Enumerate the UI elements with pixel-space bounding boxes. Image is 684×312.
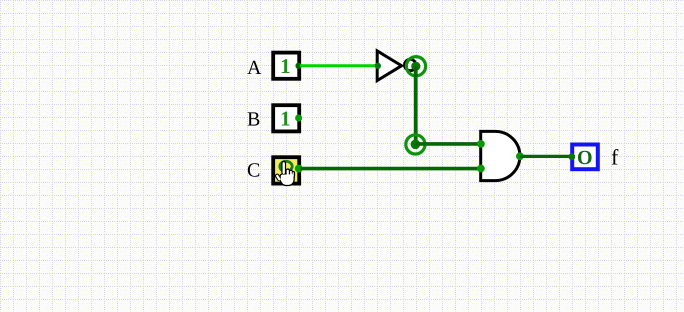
node: NOT gate input pin: [375, 63, 381, 69]
node: input A output pin: [295, 63, 301, 69]
input A label: [247, 57, 262, 79]
NOT gate U1 (triangle): [377, 51, 401, 81]
node: AND input pin 1: [477, 140, 485, 148]
node ring: junction: [406, 135, 425, 154]
svg-text:O: O: [577, 147, 593, 169]
wire: NOT output down to junction (logic 0, dark green): [414, 66, 418, 144]
node ring: NOT output: [406, 57, 425, 76]
input switch B: [273, 105, 299, 131]
input B label: [247, 108, 260, 130]
NOT gate bubble: [405, 59, 416, 70]
value 1 of input A: [280, 54, 291, 78]
AND gate U2: [481, 131, 520, 180]
node: output O input pin: [568, 153, 575, 160]
svg-text:B: B: [247, 108, 260, 130]
input switch A: [273, 53, 299, 79]
value O of output: [577, 147, 593, 169]
wire: junction to AND gate top input (logic 0): [415, 142, 481, 146]
wire: AND output to O (logic 0, dark green): [520, 155, 572, 158]
wire: A to NOT gate (logic 1, bright green): [300, 64, 378, 67]
node dot: junction: [411, 140, 421, 150]
mouse cursor (hand pointer) over input C: [275, 162, 294, 186]
svg-text:A: A: [247, 57, 262, 79]
value 0 of input C: [280, 161, 292, 171]
wire: C to AND gate bottom input (logic 0, dark green): [301, 167, 482, 171]
node: AND output pin: [516, 152, 524, 160]
node: input B output pin: [295, 115, 302, 122]
value 1 of input B: [280, 107, 291, 131]
node dot: NOT output: [411, 62, 420, 71]
input C label: [247, 160, 260, 182]
output O box: [572, 145, 598, 170]
svg-text:1: 1: [280, 107, 291, 131]
node: AND input pin 2: [477, 165, 485, 173]
svg-text:f: f: [611, 144, 619, 169]
svg-text:C: C: [247, 160, 260, 182]
input switch C (highlighted yellow): [273, 157, 299, 183]
svg-text:1: 1: [280, 54, 291, 78]
label f: [611, 144, 619, 169]
node: input C output pin: [295, 165, 303, 173]
